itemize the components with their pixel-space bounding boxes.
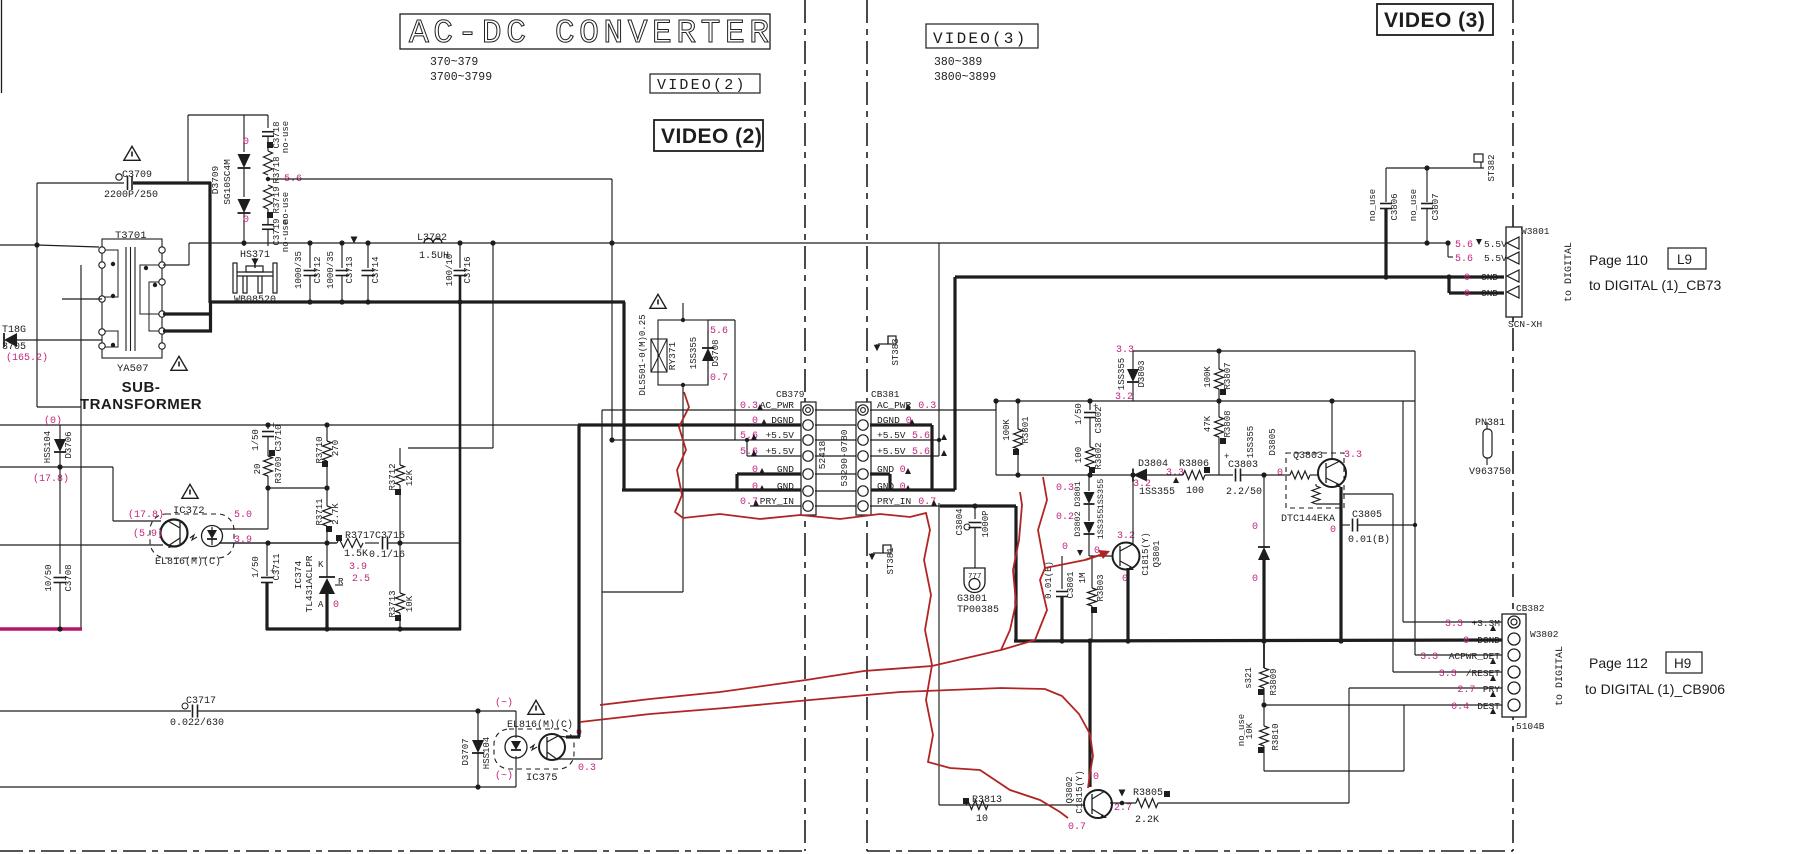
svg-text:0.01(B): 0.01(B)	[1348, 534, 1390, 546]
svg-text:AC-DC CONVERTER: AC-DC CONVERTER	[409, 15, 774, 52]
svg-text:GND: GND	[877, 481, 894, 492]
wire relay bottom vertical x683	[682, 385, 684, 592]
wire LED top	[219, 528, 268, 530]
wire 5.5V line1 junction dots	[1424, 240, 1429, 245]
svg-text:L9: L9	[1677, 252, 1692, 267]
resistor R3806 100	[1147, 474, 1183, 476]
svg-text:IC375: IC375	[526, 772, 558, 784]
svg-text:IC372: IC372	[173, 505, 205, 517]
wire 5.5V line2 branch	[1447, 243, 1449, 257]
svg-text:0: 0	[752, 416, 758, 427]
svg-text:777: 777	[968, 573, 982, 581]
capacitor C3708 10/50	[59, 467, 61, 574]
wire aux y592	[602, 591, 683, 593]
wire Q3801 emitter thick	[1126, 568, 1129, 641]
IC375 coupling arrow	[530, 745, 537, 750]
diode D3709 b (SG10SC4M)	[243, 168, 245, 197]
svg-text:100/10: 100/10	[445, 254, 455, 286]
resistor R3718	[264, 151, 273, 175]
wire /RESET	[1343, 493, 1393, 495]
svg-text:D3802: D3802	[1073, 511, 1083, 537]
svg-text:EL816(M)(C): EL816(M)(C)	[155, 556, 221, 568]
CB379 PRY_IN stub	[750, 505, 801, 507]
svg-text:1/50: 1/50	[251, 429, 261, 451]
svg-text:0.4: 0.4	[1451, 702, 1469, 713]
svg-text:D3709: D3709	[210, 165, 221, 194]
connector mating wires	[815, 409, 856, 411]
svg-text:A: A	[318, 600, 324, 610]
svg-text:R3710: R3710	[315, 436, 325, 463]
IC375 dashed outline	[494, 729, 574, 769]
wire +5.5V to W3801	[870, 439, 939, 441]
svg-text:+: +	[1224, 452, 1229, 462]
resistor R3712 12K	[399, 448, 401, 465]
svg-text:0.7: 0.7	[710, 373, 728, 384]
svg-text:no-use: no-use	[281, 121, 291, 153]
svg-text:CB382: CB382	[1516, 603, 1545, 614]
wire 5.6 vertical x612	[611, 179, 613, 440]
svg-text:D3706: D3706	[64, 431, 74, 458]
relay coil box DLS501	[651, 339, 667, 372]
wire thick transformer stub 1	[163, 312, 212, 315]
wire feedback y543	[219, 542, 337, 544]
wire thick GND bus y490 left	[622, 488, 801, 491]
wire PRY	[1349, 687, 1502, 689]
diode D3707 HSS104	[475, 708, 480, 713]
svg-text:3.9: 3.9	[234, 535, 252, 546]
test point ST383	[878, 343, 888, 345]
svg-text:(0): (0)	[44, 415, 62, 427]
resistor R3713 10K	[399, 543, 401, 593]
page boundary dashed line bottom-right	[867, 850, 1513, 852]
wire rail y351	[1133, 350, 1415, 352]
svg-text:C3717: C3717	[186, 696, 216, 707]
warning triangle near D3709	[124, 146, 140, 160]
svg-text:TP00385: TP00385	[957, 605, 999, 616]
Q3803 collector wire	[1331, 401, 1333, 459]
svg-text:5.6: 5.6	[710, 326, 728, 337]
wire secondary rail y243	[189, 242, 1449, 244]
IC375 phototransistor circle	[539, 734, 565, 760]
svg-text:C3806: C3806	[1390, 193, 1400, 220]
svg-text:R3807: R3807	[1223, 362, 1233, 389]
svg-text:W3802: W3802	[1530, 629, 1559, 640]
svg-text:GND: GND	[1481, 288, 1498, 299]
svg-text:3705: 3705	[2, 342, 26, 353]
IC372 coupling arrow	[190, 535, 197, 540]
test point ST382	[1480, 162, 1482, 168]
resistor R3801 100K	[1017, 401, 1019, 429]
svg-text:Page 112: Page 112	[1589, 655, 1648, 671]
svg-text:C3801: C3801	[1066, 571, 1076, 598]
svg-text:C3803: C3803	[1228, 460, 1258, 471]
wire thick Q3803 emitter to bus	[1339, 487, 1342, 641]
svg-text:G3801: G3801	[957, 594, 987, 605]
svg-text:TRANSFORMER: TRANSFORMER	[80, 396, 202, 413]
capacitor C3713 1000/35	[341, 243, 343, 268]
svg-text:C3804: C3804	[955, 508, 965, 535]
svg-text:12K: 12K	[405, 469, 415, 486]
transformer core lines	[125, 247, 127, 351]
svg-text:0: 0	[1277, 468, 1283, 479]
svg-text:K: K	[318, 560, 324, 570]
svg-text:1000/35: 1000/35	[326, 251, 336, 289]
diode D3803 1SS355	[1132, 351, 1134, 369]
wire +5.5V feed y440	[612, 439, 801, 441]
svg-text:RY371: RY371	[667, 341, 678, 370]
svg-text:(~): (~)	[495, 697, 513, 709]
page boundary dashed line middle	[866, 0, 868, 851]
magenta highlight bar	[0, 627, 82, 631]
svg-text:PRY_IN: PRY_IN	[760, 496, 794, 507]
wire thick GND pin4 branch	[1447, 277, 1450, 293]
wire PRY riser x1349	[1348, 688, 1350, 803]
svg-text:0: 0	[1464, 273, 1470, 284]
CB381 pin arrows	[905, 404, 911, 410]
capacitor C3806 no_use	[1385, 168, 1387, 202]
svg-text:no_use: no_use	[1409, 189, 1419, 221]
svg-text:5.6: 5.6	[1455, 254, 1473, 265]
wire thick bottom bus y629	[266, 627, 461, 630]
wire branch to transformer pin1	[37, 245, 99, 247]
svg-text:1SS355: 1SS355	[1139, 487, 1175, 498]
svg-text:PN381: PN381	[1475, 418, 1505, 429]
svg-text:+3.3M: +3.3M	[1471, 618, 1500, 629]
svg-text:C3709: C3709	[122, 170, 152, 181]
red trace B upper diagonal	[600, 492, 1022, 705]
transistor Q3802 C1815(Y)	[1084, 790, 1112, 818]
svg-text:2.2/50: 2.2/50	[1226, 486, 1262, 498]
wire DEST	[1264, 704, 1502, 706]
svg-text:DGND: DGND	[1477, 635, 1500, 646]
svg-text:3.9: 3.9	[349, 562, 367, 573]
capacitor C3719 no-use	[262, 224, 274, 226]
wire thin x602 vertical	[601, 410, 603, 759]
svg-text:370~379: 370~379	[430, 56, 478, 69]
svg-text:2.2K: 2.2K	[1135, 815, 1159, 826]
svg-text:2.7K: 2.7K	[331, 503, 341, 525]
svg-text:1M: 1M	[1078, 573, 1088, 584]
svg-text:1SS355: 1SS355	[1096, 479, 1106, 510]
wire thick main bus y302	[210, 300, 625, 303]
resistor R3808 47K	[1218, 401, 1220, 417]
svg-text:ST382: ST382	[1487, 154, 1497, 181]
svg-text:R3712: R3712	[388, 463, 398, 490]
wire to IC372 collector	[112, 467, 114, 521]
svg-text:C3714: C3714	[371, 256, 381, 283]
svg-text:100: 100	[1186, 486, 1204, 497]
svg-text:TL431ACLPR: TL431ACLPR	[304, 555, 315, 612]
capacitor C3804 1000P	[974, 506, 976, 519]
wire y467 left	[0, 466, 113, 468]
svg-text:0: 0	[752, 482, 758, 493]
page boundary dashed line right	[1512, 0, 1514, 851]
capacitor C3712 1000/35	[309, 243, 311, 268]
wire x81 long vertical	[80, 265, 82, 630]
CB381 GND thick jog pin5	[870, 472, 890, 475]
svg-text:R: R	[338, 577, 344, 587]
svg-text:GND: GND	[777, 481, 794, 492]
page boundary dashed line bottom-left	[0, 850, 805, 852]
wire LED bottom y543	[219, 542, 336, 544]
transformer right winding boxes	[140, 265, 162, 314]
wire jog y407	[37, 406, 81, 408]
svg-text:HSS104: HSS104	[482, 737, 492, 769]
resistor R3717 1.5K	[336, 535, 342, 541]
svg-text:DLS501-0(M)0.25: DLS501-0(M)0.25	[638, 314, 648, 395]
svg-text:5.5V: 5.5V	[1484, 253, 1507, 264]
svg-text:SCN-XH: SCN-XH	[1508, 319, 1542, 330]
IC372 phototransistor circle	[161, 520, 188, 547]
capacitor C3717 0.022/630	[0, 710, 191, 712]
svg-text:(165.2): (165.2)	[6, 352, 48, 364]
svg-text:5.5V: 5.5V	[1484, 239, 1507, 250]
page boundary dashed line left	[804, 0, 806, 851]
svg-text:C3802: C3802	[1094, 406, 1104, 433]
svg-text:0.3: 0.3	[1056, 483, 1074, 494]
svg-text:0: 0	[1464, 289, 1470, 300]
svg-text:to DIGITAL (1)_CB906: to DIGITAL (1)_CB906	[1585, 681, 1725, 697]
svg-text:C1815(Y): C1815(Y)	[1075, 770, 1085, 813]
wire no_use return loop	[1263, 746, 1265, 771]
svg-text:+5.5V: +5.5V	[877, 430, 906, 441]
svg-text:R3711: R3711	[315, 498, 325, 525]
capacitor C3710 1/50	[267, 425, 269, 429]
resistor R3711 2.7K	[326, 488, 328, 506]
svg-text:D3708: D3708	[711, 339, 721, 366]
svg-text:5.6: 5.6	[740, 447, 758, 458]
diode D3708 1SS355	[707, 330, 709, 348]
capacitor C3801 0.01(B)	[1061, 556, 1063, 589]
svg-text:+5.5V: +5.5V	[765, 430, 794, 441]
svg-text:C1815(Y): C1815(Y)	[1141, 532, 1151, 575]
svg-text:3.3: 3.3	[1420, 652, 1438, 663]
svg-text:0: 0	[1463, 636, 1469, 647]
svg-text:R3713: R3713	[388, 590, 398, 617]
wire R3805 emitter net	[1110, 802, 1136, 804]
svg-text:270: 270	[331, 440, 341, 456]
wire column x268 top	[267, 115, 269, 128]
svg-text:3.3: 3.3	[1344, 450, 1362, 461]
wire left edge x996	[995, 401, 997, 475]
red trace B branch	[1001, 560, 1085, 650]
wire top rail y115	[188, 114, 268, 116]
svg-text:VIDEO(3): VIDEO(3)	[933, 30, 1027, 48]
wire DGND long y425	[0, 424, 578, 426]
svg-text:D3805: D3805	[1268, 428, 1278, 455]
warning triangle IC372	[182, 484, 198, 498]
capacitor C3709	[116, 174, 122, 180]
svg-text:3700~3799: 3700~3799	[430, 71, 492, 84]
svg-text:R3803: R3803	[1096, 574, 1106, 601]
capacitor C3718 no-use	[262, 131, 274, 133]
transformer right pins	[159, 247, 165, 253]
CB379 pin arrows	[757, 404, 763, 410]
transformer left pins	[99, 247, 105, 253]
diode D3805 1SS355	[1263, 475, 1265, 547]
svg-text:+5.5V: +5.5V	[765, 446, 794, 457]
left edge vertical line	[1, 0, 3, 93]
wire IC372 emitter y545	[0, 544, 163, 546]
resistor R3710 270	[326, 425, 328, 441]
svg-text:ST383: ST383	[891, 338, 901, 365]
svg-text:5.6: 5.6	[740, 431, 758, 442]
wire +5.5V second tap x747	[746, 440, 748, 456]
svg-text:1SS355: 1SS355	[1096, 509, 1106, 540]
capacitor C3716 100/10	[459, 243, 461, 268]
wire DGND right jog	[870, 423, 932, 426]
svg-text:47K: 47K	[1203, 415, 1213, 432]
svg-text:R3805: R3805	[1133, 788, 1163, 799]
svg-text:Q3802: Q3802	[1065, 776, 1075, 803]
resistor R3709 20	[264, 456, 273, 476]
svg-text:ST381: ST381	[886, 547, 896, 574]
wire ACPWR_DET	[1415, 654, 1502, 656]
svg-text:10: 10	[976, 814, 988, 825]
title box AC-DC CONVERTER	[400, 14, 770, 49]
bold label box VIDEO (2)	[654, 120, 763, 151]
svg-text:5104B: 5104B	[1516, 721, 1545, 732]
svg-text:D3801: D3801	[1073, 481, 1083, 507]
label box VIDEO(2)	[650, 74, 760, 93]
warning triangle IC375	[528, 700, 544, 714]
svg-text:1000/35: 1000/35	[294, 251, 304, 289]
wire thick GND riser x955	[953, 277, 956, 490]
wire PRY_IN right	[870, 505, 940, 507]
svg-text:10K: 10K	[1245, 722, 1255, 739]
svg-text:1000P: 1000P	[981, 510, 991, 537]
svg-text:R3801: R3801	[1021, 416, 1031, 443]
svg-text:0: 0	[1093, 772, 1099, 783]
svg-text:CB381: CB381	[871, 389, 900, 400]
wire thick transformer stub 2	[163, 329, 212, 332]
svg-text:1SS355: 1SS355	[1246, 426, 1256, 458]
wire left edge y245	[0, 244, 37, 246]
svg-text:C3710: C3710	[274, 424, 284, 451]
svg-text:GND: GND	[1481, 272, 1498, 283]
bold label box VIDEO (3)	[1377, 4, 1493, 35]
wire thick GND top y277 to W3801	[955, 275, 1504, 278]
svg-text:R3709: R3709	[274, 456, 284, 483]
svg-text:0: 0	[900, 465, 906, 476]
red arrow at Q3801 base	[1085, 553, 1106, 560]
wire relay riser x735 to +5.5V	[708, 319, 735, 321]
capacitor C3802 1/50	[1089, 401, 1091, 410]
svg-text:no-use: no-use	[281, 192, 291, 224]
svg-text:H9: H9	[1674, 656, 1691, 671]
svg-text:0: 0	[243, 137, 249, 148]
transformer T3701 outer box	[102, 239, 162, 358]
svg-text:R3802: R3802	[1094, 442, 1104, 469]
wire +3.3M	[1402, 401, 1404, 622]
svg-text:D3707: D3707	[461, 738, 471, 765]
svg-text:DGND: DGND	[771, 415, 794, 426]
svg-text:VIDEO (2): VIDEO (2)	[661, 125, 762, 148]
svg-text:0: 0	[333, 600, 339, 611]
CB382 pin arrows	[1490, 625, 1496, 631]
wire row y475	[996, 474, 1133, 476]
svg-text:SUB-: SUB-	[122, 379, 161, 396]
svg-text:3.3: 3.3	[1445, 619, 1463, 630]
svg-text:VIDEO (3): VIDEO (3)	[1384, 9, 1485, 32]
IC375 LED circle	[505, 736, 527, 758]
svg-text:0.3: 0.3	[740, 401, 758, 412]
svg-text:0.2: 0.2	[1056, 512, 1074, 523]
warning triangle near relay	[650, 294, 666, 308]
wire R3712 top riser x493	[408, 447, 493, 449]
svg-text:100K: 100K	[1203, 366, 1213, 388]
svg-text:R3717: R3717	[345, 531, 375, 542]
svg-text:1.5K: 1.5K	[344, 549, 368, 560]
svg-text:2200P/250: 2200P/250	[104, 189, 158, 201]
svg-text:(5.9): (5.9)	[133, 528, 163, 540]
svg-text:(~): (~)	[495, 770, 513, 782]
svg-text:0: 0	[243, 215, 249, 226]
svg-text:C3712: C3712	[313, 256, 323, 283]
warning triangle near transformer bottom	[171, 356, 187, 370]
svg-text:0: 0	[1252, 574, 1258, 585]
svg-text:C3711: C3711	[272, 553, 282, 580]
svg-text:3.2: 3.2	[1117, 531, 1135, 542]
svg-text:no-use: no-use	[281, 220, 291, 252]
svg-text:5.0: 5.0	[234, 510, 252, 521]
capacitor C3807 no_use	[1426, 168, 1428, 202]
svg-text:AC_PWR: AC_PWR	[760, 400, 795, 411]
svg-text:HSS104: HSS104	[43, 431, 53, 463]
svg-text:C3708: C3708	[64, 564, 74, 591]
capacitor C3714	[367, 243, 369, 268]
svg-text:T18G: T18G	[2, 325, 26, 336]
wire y168 top right	[1386, 167, 1484, 169]
diode D3706 HSS104	[59, 425, 61, 440]
svg-text:(17.8): (17.8)	[33, 473, 69, 485]
polarity mark on rail	[351, 237, 358, 244]
svg-text:DEST: DEST	[1477, 701, 1500, 712]
diode D3801 1SS355	[1088, 475, 1090, 491]
wire Q3802 base y805	[939, 804, 1084, 806]
svg-text:52418: 52418	[817, 440, 828, 469]
wire rail y401 AC_PWR	[996, 400, 1415, 402]
wire AC_PWR right to x996	[870, 409, 996, 411]
test point ST381	[873, 552, 883, 554]
svg-text:s321: s321	[1244, 667, 1254, 689]
svg-text:1/50: 1/50	[1074, 403, 1084, 425]
svg-text:3.3: 3.3	[1116, 345, 1134, 356]
svg-text:V963750: V963750	[1469, 467, 1511, 478]
note box H9	[1666, 652, 1702, 673]
capacitor C3711 1/50	[266, 543, 268, 576]
wire x1415 vertical	[1414, 351, 1416, 655]
svg-text:100K: 100K	[1002, 419, 1012, 441]
svg-text:to DIGITAL (1)_CB73: to DIGITAL (1)_CB73	[1589, 277, 1721, 293]
svg-text:VIDEO(2): VIDEO(2)	[657, 77, 747, 94]
svg-text:D3804: D3804	[1138, 459, 1168, 470]
svg-text:1/50: 1/50	[251, 556, 261, 578]
diode D3709 a (SG10SC4M)	[243, 115, 245, 152]
svg-text:Page 110: Page 110	[1589, 252, 1648, 268]
resistor R3810 no_use 10K	[1263, 705, 1265, 726]
thermal fuse G3801 TP00385	[964, 568, 985, 593]
svg-text:SG10SC4M: SG10SC4M	[222, 159, 233, 205]
IC372 dashed outline	[150, 514, 234, 558]
rail junction dot D3709	[241, 240, 246, 245]
svg-text:0.022/630: 0.022/630	[170, 717, 224, 729]
wire thick Q3802 collector	[1088, 641, 1091, 787]
relay RY371 outer box	[658, 320, 708, 385]
svg-text:0: 0	[1330, 525, 1336, 536]
svg-text:T3701: T3701	[115, 230, 147, 242]
svg-text:10/50: 10/50	[44, 564, 54, 591]
